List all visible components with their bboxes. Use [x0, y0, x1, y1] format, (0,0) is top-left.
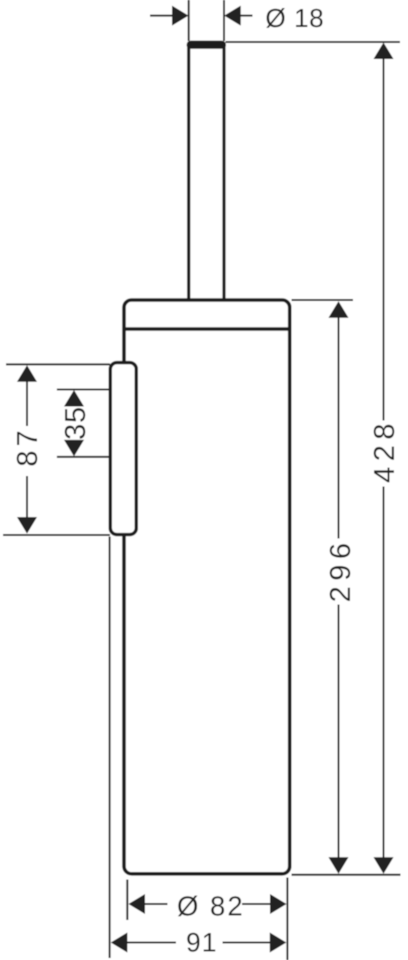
handle rod cap (filled) [187, 41, 226, 49]
wall bracket plate (covers body edge) [110, 363, 136, 535]
dimension 296 top arrow [329, 301, 349, 318]
svg-text:428: 428 [369, 418, 401, 483]
dimension Ø82 left line segment [144, 903, 168, 905]
extension line bracket top (87) [6, 363, 110, 365]
dimension Ø18 left leader line [150, 15, 173, 17]
svg-text:91: 91 [186, 927, 217, 957]
extension line bracket bottom (87) [3, 534, 110, 536]
dimension 428 line lower segment [383, 487, 385, 861]
extension line from rod top to 428 dimension [226, 41, 401, 43]
handle rod right side [222, 47, 225, 300]
dimension 87 top arrow [17, 365, 37, 382]
svg-text:Ø 82: Ø 82 [177, 891, 245, 922]
holder body outline [124, 300, 290, 874]
dimension 35 bottom arrow (pointing down) [64, 440, 84, 457]
dimension 296 bottom arrow [329, 857, 349, 874]
dimension 87 line lower segment [26, 476, 28, 518]
dimension Ø18 left arrow [172, 6, 189, 26]
dimension 91 left arrow (pointing left) [111, 933, 128, 953]
lid rim line [124, 327, 290, 330]
extension line from bracket left edge down to 91 dimension [109, 537, 111, 959]
dimension 296 line upper segment [338, 316, 340, 539]
svg-text:87: 87 [12, 426, 44, 466]
extension line from body bottom to right dimensions [292, 874, 401, 876]
dimension 91 right line segment [223, 942, 272, 944]
extension line 35 top [57, 389, 110, 391]
dimension 428 bottom arrow [374, 857, 394, 874]
extension line left of rod (Ø18) [188, 0, 190, 41]
dimension 91 left line segment [127, 942, 177, 944]
dimension Ø82 right arrow (pointing right) [270, 894, 287, 914]
svg-text:Ø 18: Ø 18 [265, 3, 324, 33]
dimension 296 line lower segment [338, 605, 340, 861]
dimension Ø82 left arrow (pointing left) [129, 894, 146, 914]
extension line from lid top to 296 dimension [292, 299, 354, 301]
dimension 91 right arrow (pointing right) [270, 933, 287, 953]
dimension 428 top arrow [374, 43, 394, 60]
extension line body bottom-left to Ø82 dimension [126, 880, 128, 921]
dimension Ø82 right line segment [242, 903, 271, 905]
svg-text:296: 296 [325, 538, 357, 603]
svg-text:35: 35 [60, 406, 92, 440]
dimension 87 bottom arrow [17, 517, 37, 534]
extension line 35 bottom [57, 456, 110, 458]
dimension 428 line upper segment [383, 57, 385, 421]
extension line right of rod (Ø18) [223, 0, 225, 41]
extension line body right down to bottom dimensions [286, 878, 288, 960]
dimension Ø18 right arrow [224, 6, 241, 26]
dimension Ø18 right leader line [240, 15, 253, 17]
handle rod left side [187, 47, 190, 300]
dimension 35 top arrow (pointing up) [64, 390, 84, 407]
dimension 87 line upper segment [26, 381, 28, 427]
